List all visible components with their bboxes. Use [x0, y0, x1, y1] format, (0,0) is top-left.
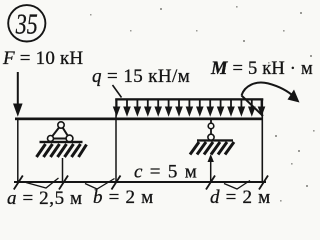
distributed load arrows [113, 99, 265, 117]
beam [15, 118, 263, 121]
right support extension line with small up arrow [208, 154, 214, 182]
svg-text:35: 35 [15, 9, 38, 41]
svg-text:c = 5 м: c = 5 м [134, 162, 198, 183]
problem number badge 35 [8, 5, 45, 41]
left support hatching [37, 144, 87, 157]
left support ground line [40, 141, 83, 143]
extension line at load start [115, 99, 117, 183]
distributed load top line [115, 98, 263, 100]
left pin support triangle [51, 125, 70, 139]
right support ground line [197, 139, 233, 141]
beam right end extension line [261, 99, 263, 182]
left support extension line [62, 158, 64, 182]
small swoosh marks under dimension line [26, 178, 250, 189]
bottom dimension line [14, 181, 266, 183]
moment curved arrow [242, 83, 300, 103]
right roller support circles [208, 120, 214, 140]
leader line from q label to load [113, 85, 122, 98]
dimension slash ticks [14, 176, 268, 190]
svg-text:b = 2 м: b = 2 м [93, 187, 154, 208]
svg-text:d = 2 м: d = 2 м [210, 187, 271, 208]
svg-text:M = 5 кН · м: M = 5 кН · м [210, 59, 313, 79]
left support hinge circles [48, 122, 73, 142]
force F arrow [13, 72, 23, 117]
moment arrow tail [242, 96, 264, 117]
scan noise dots [90, 6, 315, 202]
svg-text:a = 2,5 м: a = 2,5 м [7, 188, 83, 209]
left extension line at beam left end [17, 120, 19, 182]
svg-text:F = 10 кН: F = 10 кН [2, 48, 83, 69]
right support hatching [190, 142, 234, 155]
svg-text:q = 15 кН/м: q = 15 кН/м [92, 66, 190, 87]
